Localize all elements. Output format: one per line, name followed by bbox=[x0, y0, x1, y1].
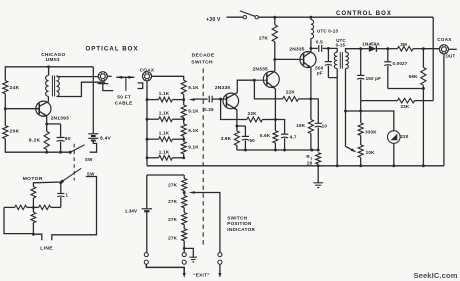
svg-text:COAX: COAX bbox=[437, 37, 452, 42]
wire: 0.25 to Q2 base bbox=[212, 98, 222, 101]
svg-text:1.1K: 1.1K bbox=[159, 149, 170, 154]
box label: CONTROL BOX bbox=[336, 10, 392, 17]
resistor 18K bbox=[296, 120, 313, 151]
svg-text:10: 10 bbox=[322, 123, 328, 128]
resistor 1.1K #4 bbox=[147, 149, 185, 160]
svg-text:18: 18 bbox=[307, 161, 313, 166]
wire: left rail bottom corner bbox=[5, 139, 70, 153]
coax connector J3 output bbox=[437, 37, 455, 58]
transformer T2 UTC 0-15 label bbox=[336, 38, 347, 48]
wire: diode out node bbox=[386, 47, 397, 50]
switch S1 (+30V) bbox=[240, 11, 259, 19]
svg-text:2N1393: 2N1393 bbox=[51, 116, 69, 122]
resistor 330K bbox=[358, 111, 377, 135]
wire: +30V rail drop bbox=[432, 17, 434, 100]
capacitor 10 bbox=[311, 99, 327, 150]
svg-text:SW: SW bbox=[85, 157, 93, 162]
svg-text:SWITCH: SWITCH bbox=[191, 59, 213, 65]
capacitor 0.5 bbox=[311, 39, 330, 51]
capacitor 500 pF bbox=[315, 48, 332, 77]
resistor 9.1K #3 bbox=[181, 119, 199, 139]
capacitor 50 bbox=[237, 126, 255, 150]
svg-text:pF: pF bbox=[317, 70, 323, 75]
wire: T1 secondary bottom return bbox=[57, 82, 106, 96]
label: LINE bbox=[40, 245, 53, 251]
label: EXIT bbox=[193, 272, 210, 277]
svg-text:3M: 3M bbox=[400, 42, 407, 47]
wire: Q2 collector up to Q3 base node bbox=[237, 80, 254, 92]
resistor 22K (bias) bbox=[247, 111, 276, 122]
svg-text:5.6K: 5.6K bbox=[260, 133, 271, 138]
rail A (emitter common) bbox=[237, 149, 320, 152]
resistor 1.1K #3 bbox=[147, 131, 185, 142]
node: indicator tap bbox=[183, 191, 186, 194]
wire: Q3 collector node to Q4 base bbox=[275, 58, 300, 60]
wire: chain top bbox=[147, 174, 184, 176]
svg-text:9.1K: 9.1K bbox=[188, 145, 199, 150]
wire: ladder left rail bbox=[146, 81, 149, 166]
svg-text:POSITION: POSITION bbox=[227, 221, 252, 226]
svg-text:SW: SW bbox=[87, 171, 95, 176]
resistor (motor, lower vertical) bbox=[31, 212, 36, 235]
svg-text:1: 1 bbox=[66, 193, 69, 198]
inductor UTC 0-13 bbox=[309, 16, 338, 49]
wire: common rail B bbox=[147, 164, 444, 167]
resistor 3M bbox=[397, 42, 424, 51]
terminal jacks (battery pair) bbox=[144, 253, 148, 265]
lamp DS1 220 bbox=[388, 131, 409, 166]
wire: 3M to coax out bbox=[423, 48, 439, 50]
battery B2 1.34V bbox=[125, 175, 152, 252]
resistor 27K #2 bbox=[168, 193, 187, 213]
wire: Q3 collector to 27K bbox=[273, 58, 276, 71]
svg-text:1.34V: 1.34V bbox=[125, 208, 138, 213]
wire: J2 to ladder top bbox=[152, 76, 184, 80]
svg-text:CABLE: CABLE bbox=[115, 101, 133, 106]
ground (27K chain) bbox=[184, 248, 197, 262]
svg-text:LINE: LINE bbox=[40, 245, 53, 251]
coax connector J2 bbox=[140, 68, 155, 81]
resistor 27K #4 bbox=[168, 229, 187, 253]
wire: coax out stub bbox=[449, 48, 457, 50]
resistor 3.9K bbox=[221, 131, 240, 150]
svg-text:27K: 27K bbox=[168, 235, 178, 240]
wire: coax shell to rail B bbox=[443, 54, 445, 166]
svg-text:27K: 27K bbox=[168, 199, 178, 204]
label: MOTOR bbox=[23, 176, 43, 182]
svg-text:60: 60 bbox=[65, 136, 71, 142]
transformer T2 core bbox=[340, 52, 342, 68]
svg-text:2N335: 2N335 bbox=[215, 85, 230, 91]
svg-text:MOTOR: MOTOR bbox=[23, 176, 43, 182]
node: base of 2N1393 bbox=[5, 108, 39, 110]
svg-text:2N335: 2N335 bbox=[253, 66, 268, 72]
svg-text:UMII3: UMII3 bbox=[46, 57, 60, 62]
decade switch wiper arrow bbox=[189, 98, 208, 101]
label: +30 V bbox=[206, 17, 221, 23]
capacitor 60 bbox=[47, 124, 71, 154]
shield stub under J1 bbox=[98, 84, 114, 91]
svg-text:CONTROL BOX: CONTROL BOX bbox=[336, 10, 392, 17]
resistor 24K bbox=[3, 81, 20, 94]
resistor (motor row right) bbox=[33, 205, 60, 209]
decade switch gang dashed line bbox=[202, 69, 204, 247]
cable length arrow 50 FT bbox=[116, 76, 134, 91]
svg-text:330K: 330K bbox=[365, 130, 377, 135]
ground (below rail B) bbox=[313, 166, 323, 188]
resistor R1 18 bbox=[306, 153, 320, 166]
svg-text:50: 50 bbox=[249, 138, 255, 143]
transformer T2 secondary bbox=[346, 49, 361, 69]
wire: battery to SW1 contact bbox=[90, 141, 97, 152]
wire: Q4 collector node bbox=[309, 47, 312, 52]
wire: motor to resistor row bbox=[32, 198, 35, 212]
label: SWITCH POSITION INDICATOR bbox=[227, 215, 255, 231]
svg-text:56K: 56K bbox=[409, 74, 419, 79]
resistor 33K bbox=[361, 98, 434, 109]
svg-text:9.1K: 9.1K bbox=[188, 85, 199, 90]
svg-text:“EXIT”: “EXIT” bbox=[193, 272, 210, 277]
resistor 27K #3 bbox=[168, 213, 187, 229]
svg-text:OUT: OUT bbox=[446, 53, 456, 58]
wire: 8.2K bottom bbox=[45, 150, 48, 154]
wire: Q4 emitter line bbox=[309, 68, 312, 120]
resistor 20K bbox=[3, 126, 20, 139]
coax connector J1 bbox=[98, 72, 111, 81]
svg-text:1N459A: 1N459A bbox=[362, 41, 380, 46]
svg-text:3.9K: 3.9K bbox=[221, 136, 232, 141]
wire: T2 secondary bottom feedback bbox=[344, 69, 361, 147]
wire: +30V rail bbox=[258, 16, 433, 18]
svg-text:33K: 33K bbox=[400, 104, 410, 109]
svg-text:27K: 27K bbox=[168, 217, 178, 222]
wire: 330K chain top tee bbox=[359, 101, 362, 113]
svg-text:DECADE: DECADE bbox=[192, 52, 215, 58]
svg-text:18K: 18K bbox=[296, 123, 306, 128]
resistor 8.2K bbox=[29, 131, 49, 149]
svg-text:8.2K: 8.2K bbox=[29, 138, 41, 144]
box label: OPTICAL BOX bbox=[86, 46, 139, 53]
wire: motor top bbox=[33, 181, 62, 186]
svg-text:22K: 22K bbox=[248, 111, 258, 116]
svg-text:1.1K: 1.1K bbox=[159, 111, 170, 116]
svg-text:50 FT: 50 FT bbox=[117, 95, 131, 100]
svg-text:0.25: 0.25 bbox=[204, 107, 214, 112]
transformer T1 primary winding bbox=[46, 67, 49, 97]
potentiometer wiper arrow to 10K bbox=[346, 146, 357, 152]
transistor Q3 2N335 bbox=[253, 66, 280, 89]
svg-text:9.1K: 9.1K bbox=[188, 108, 199, 113]
switch SW1 bbox=[69, 145, 93, 162]
resistor 1.1K #2 bbox=[147, 111, 185, 122]
capacitor 0.25 bbox=[204, 96, 214, 112]
switch SW2 bbox=[61, 168, 95, 183]
svg-text:UTC 0-13: UTC 0-13 bbox=[317, 29, 338, 34]
wire: exit run bbox=[146, 264, 186, 277]
svg-text:9.1K: 9.1K bbox=[188, 128, 199, 133]
capacitor 1 (motor) bbox=[57, 183, 68, 208]
wire: left rail between 24K and 20K bbox=[4, 94, 7, 126]
svg-text:24K: 24K bbox=[10, 85, 20, 91]
terminal jacks (indicator pair) bbox=[218, 253, 222, 265]
svg-text:22K: 22K bbox=[286, 90, 296, 95]
resistor 9.1K #4 bbox=[181, 139, 199, 158]
svg-text:27K: 27K bbox=[259, 36, 269, 41]
transistor Q1 2N1393 bbox=[36, 101, 69, 122]
transistor Q4 2N335 bbox=[289, 46, 316, 68]
diode D1 1N459A bbox=[361, 41, 388, 52]
resistor (motor row left) bbox=[4, 205, 33, 209]
wire: SW2 contact down to LINE bbox=[52, 177, 97, 241]
wire: Q2 base bias drop bbox=[221, 99, 247, 119]
label: 50 FT CABLE bbox=[115, 95, 133, 106]
indicator wire with arrow bbox=[189, 191, 220, 252]
wire: Q1 collector to transformer primary bbox=[47, 96, 49, 101]
transformer T1 secondary winding bbox=[57, 76, 60, 97]
svg-text:SWITCH: SWITCH bbox=[227, 215, 247, 220]
transformer T1 core bbox=[52, 75, 54, 96]
svg-text:SeekIC.com: SeekIC.com bbox=[414, 271, 458, 280]
lamp 220 feed bbox=[361, 111, 394, 131]
wire: +30V feed bbox=[227, 16, 244, 18]
svg-text:220: 220 bbox=[400, 134, 409, 139]
wire: feedback 22K line bbox=[254, 80, 282, 99]
svg-text:27K: 27K bbox=[168, 182, 178, 187]
label: DECADE SWITCH bbox=[191, 52, 215, 65]
resistor 5.6K bbox=[260, 120, 278, 151]
svg-text:10K: 10K bbox=[366, 150, 376, 155]
svg-text:1.1K: 1.1K bbox=[159, 91, 170, 96]
terminal jacks (chain pair) bbox=[182, 253, 186, 265]
wire: Q3 emitter bbox=[274, 89, 277, 121]
wire: Q1 emitter node bbox=[45, 116, 48, 131]
transistor Q2 2N335 bbox=[215, 85, 239, 110]
transformer T1 label CHICAGO UMII3 bbox=[41, 52, 65, 62]
capacitor 4.7 bbox=[275, 120, 297, 151]
svg-text:0.5: 0.5 bbox=[316, 39, 323, 44]
svg-text:0-15: 0-15 bbox=[336, 43, 346, 48]
wire: Q2 emitter bbox=[235, 110, 238, 131]
capacitor 0.0027 bbox=[384, 49, 408, 89]
wire: 500pF bottom / primary return bbox=[328, 78, 337, 166]
svg-text:20K: 20K bbox=[10, 129, 20, 135]
resistor 9.1K #1 bbox=[181, 80, 199, 99]
resistor 10K (pot) bbox=[358, 135, 375, 166]
svg-text:0.0027: 0.0027 bbox=[393, 61, 408, 66]
svg-text:2N335: 2N335 bbox=[289, 46, 304, 52]
wire: 0.0027/56K bottom join bbox=[388, 89, 424, 166]
wire: optical +rail top (left rail to battery corner) bbox=[5, 65, 93, 80]
gang dashed link between SW1 and SW2 bbox=[73, 144, 75, 181]
svg-text:1.1K: 1.1K bbox=[159, 131, 170, 136]
wire: indicator exit bbox=[218, 264, 221, 277]
watermark SeekIC.com bbox=[414, 271, 458, 280]
svg-text:8.4V: 8.4V bbox=[100, 135, 112, 141]
resistor 27K #1 bbox=[168, 175, 187, 193]
resistor 9.1K #2 bbox=[181, 100, 199, 120]
resistor 27K (collector load) bbox=[259, 16, 277, 60]
svg-text:4.7: 4.7 bbox=[290, 134, 297, 139]
motor winding M1 bbox=[31, 187, 36, 199]
wire: motor row left loop bbox=[4, 207, 42, 240]
wire: T1 secondary top to coax J1 bbox=[57, 76, 99, 78]
shield stubs under J2 bbox=[138, 83, 143, 89]
resistor 1.1K #1 bbox=[147, 91, 185, 102]
resistor 56K bbox=[409, 49, 426, 90]
battery B1 8.4V bbox=[88, 67, 111, 142]
capacitor 150 pF bbox=[357, 47, 381, 100]
svg-text:+30 V: +30 V bbox=[206, 17, 221, 23]
resistor 22K (feedback) bbox=[283, 90, 311, 102]
svg-text:150 pF: 150 pF bbox=[366, 76, 382, 81]
transformer T2 primary bbox=[328, 48, 337, 77]
svg-text:OPTICAL BOX: OPTICAL BOX bbox=[86, 46, 139, 53]
svg-text:INDICATOR: INDICATOR bbox=[227, 227, 255, 232]
